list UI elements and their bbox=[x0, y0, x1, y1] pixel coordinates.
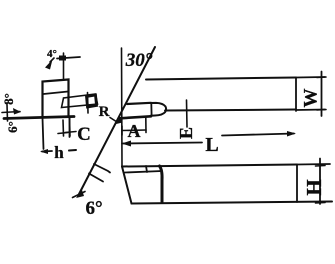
side view front face bbox=[122, 167, 132, 204]
angle tick mark upper bbox=[94, 164, 110, 173]
8-deg tick vertical bbox=[6, 105, 9, 122]
4-deg arrowhead dot bbox=[59, 56, 66, 61]
h dimension arrow bbox=[42, 150, 52, 153]
svg-text:6°: 6° bbox=[85, 198, 102, 219]
side view top edge extension bbox=[297, 163, 330, 166]
top view right end bbox=[295, 78, 297, 112]
end view insert vertical edge bbox=[87, 93, 90, 114]
svg-text:8°: 8° bbox=[1, 93, 16, 105]
svg-text:A: A bbox=[128, 121, 141, 141]
W extension bottom bbox=[296, 109, 325, 112]
L left arrowhead bbox=[122, 141, 132, 147]
W tick bottom bbox=[317, 109, 326, 112]
diagonal end cross tick bbox=[73, 192, 86, 198]
end view left extension line for h bbox=[43, 118, 44, 149]
svg-text:C: C bbox=[77, 124, 91, 145]
side view insert tick bbox=[146, 166, 147, 172]
side view right end bbox=[296, 165, 298, 203]
svg-text:E: E bbox=[176, 127, 196, 139]
end view insert parallelogram bbox=[62, 94, 98, 108]
A left tick bbox=[121, 126, 123, 135]
H tick bottom bbox=[316, 202, 326, 205]
end view insert boundary line bbox=[44, 92, 69, 95]
H tick top bbox=[316, 165, 326, 168]
svg-text:30°: 30° bbox=[125, 50, 153, 71]
R leader bbox=[110, 118, 117, 123]
L dimension line left bbox=[122, 143, 202, 144]
top view insert capsule rounded nose bbox=[151, 103, 167, 116]
top view insert capsule top edge bbox=[127, 103, 151, 104]
4-deg pointer arrow bbox=[50, 58, 54, 62]
8-deg leader line bbox=[2, 112, 20, 113]
W tick top bbox=[317, 76, 326, 79]
svg-text:H: H bbox=[302, 179, 326, 195]
C extension tick 2 bbox=[69, 118, 72, 136]
top view bottom edge bbox=[165, 110, 296, 111]
vertical projection line through tip bbox=[121, 48, 124, 166]
svg-text:W: W bbox=[300, 89, 321, 108]
side view insert back edge (thick) bbox=[160, 166, 163, 202]
W dimension line bbox=[321, 72, 323, 117]
4-deg leader horizontal bbox=[57, 57, 80, 59]
H dimension line bbox=[319, 159, 321, 205]
8-deg leader arrowhead bbox=[13, 108, 21, 115]
svg-text:h: h bbox=[54, 143, 64, 162]
h dimension dash bbox=[69, 149, 76, 152]
C extension tick 1 bbox=[62, 120, 65, 136]
tip arrowhead on diagonal bbox=[114, 116, 123, 125]
end view insert tip square bbox=[87, 95, 97, 107]
W extension top bbox=[296, 76, 325, 79]
L right arrowhead bbox=[287, 131, 296, 137]
A dimension line bbox=[122, 129, 146, 132]
main diagonal cutting-edge construction line bbox=[78, 47, 155, 196]
side view bottom edge bbox=[132, 202, 333, 204]
angle tick mark lower bbox=[89, 174, 103, 182]
end view body rectangle bbox=[43, 80, 69, 118]
side view insert bottom line bbox=[125, 171, 162, 173]
4-deg extension vertical bbox=[63, 53, 65, 80]
svg-text:R: R bbox=[99, 104, 110, 120]
A right extension bbox=[145, 118, 147, 133]
top view top edge bbox=[146, 78, 296, 80]
svg-text:6°: 6° bbox=[5, 121, 20, 133]
side view top edge bbox=[122, 165, 297, 167]
end view right extension line bbox=[69, 117, 71, 137]
L dimension line right bbox=[222, 134, 294, 136]
top view insert capsule bottom edge (thick) bbox=[120, 116, 151, 118]
top view insert nose divider bbox=[150, 103, 152, 116]
svg-text:L: L bbox=[205, 134, 218, 156]
end view main cutting edge (thick horizontal) bbox=[4, 117, 74, 119]
svg-text:4°: 4° bbox=[47, 48, 57, 60]
E tick bbox=[186, 100, 189, 127]
